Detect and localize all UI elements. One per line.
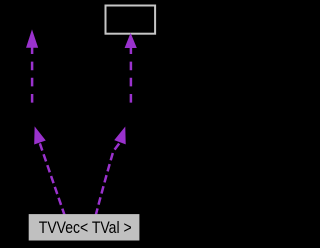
edge: upper-right dashed arrow shaft — [130, 47, 133, 103]
edge: upper-right arrowhead — [125, 34, 136, 48]
node label: TVVec< TVal > — [39, 219, 132, 238]
doxygen collaboration diagram (raw RGB of transparent PNG: black bg) — [0, 0, 188, 248]
edge: upper-left arrowhead — [27, 31, 38, 48]
node: empty top box — [106, 6, 156, 34]
edge: lower-left arrowhead — [35, 128, 46, 144]
edge: lower-left diagonal dashed shaft — [40, 143, 65, 216]
edge: lower-right arrowhead — [115, 128, 125, 144]
node: TVVec< TVal > box fill — [29, 214, 140, 240]
svg-text:TVVec< TVal >: TVVec< TVal > — [39, 219, 132, 238]
edge: lower-right diagonal dashed shaft — [96, 142, 121, 216]
edge: upper-left dashed arrow shaft — [31, 47, 34, 103]
